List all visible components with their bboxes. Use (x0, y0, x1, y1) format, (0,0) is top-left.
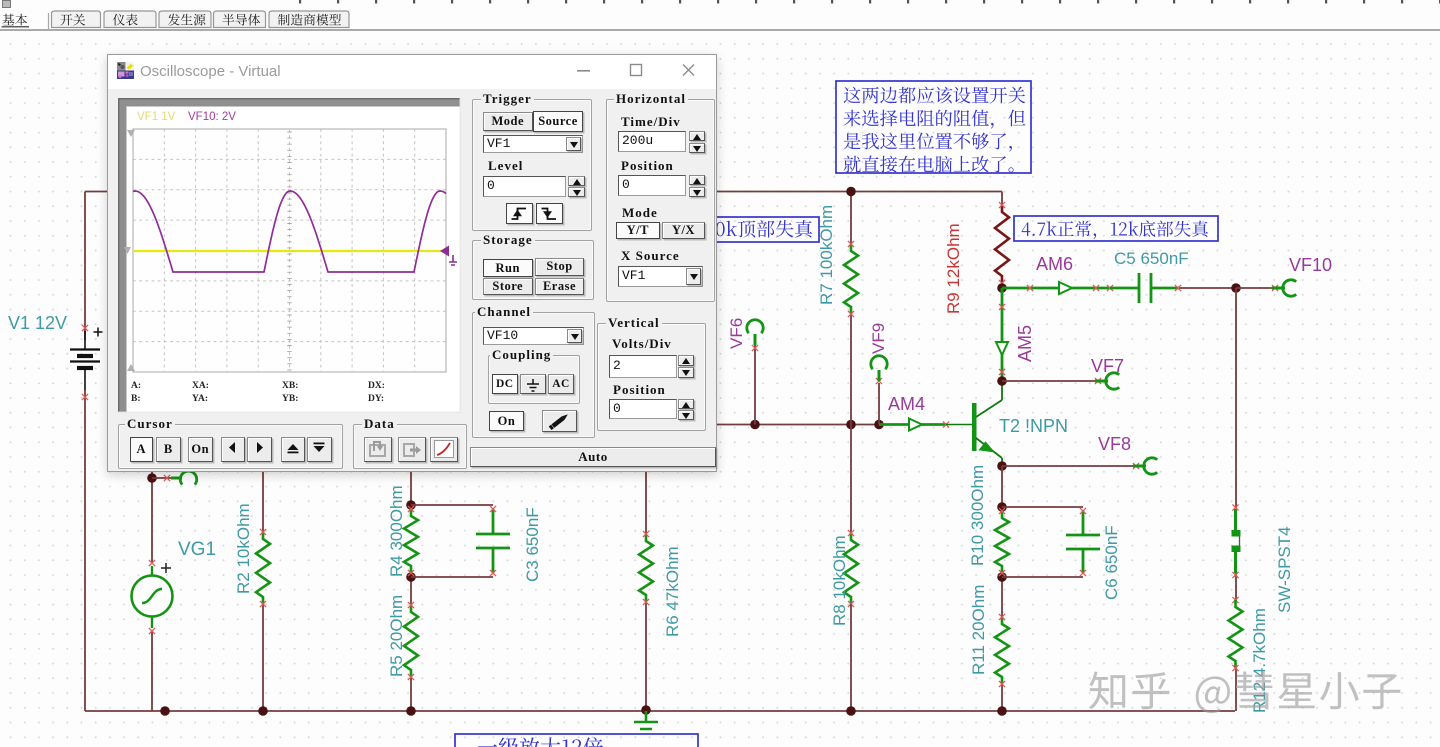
svg-text:VF10: VF10 (1289, 255, 1332, 275)
svg-text:C3 650nF: C3 650nF (523, 507, 542, 582)
svg-text:YB:: YB: (282, 394, 298, 404)
svg-text:DX:: DX: (368, 381, 385, 391)
svg-text:XB:: XB: (282, 381, 298, 391)
svg-text:AM5: AM5 (1015, 325, 1035, 362)
svg-text:R9 12kOhm: R9 12kOhm (944, 223, 963, 314)
svg-text:A:: A: (131, 381, 141, 391)
svg-text:R4 300Ohm: R4 300Ohm (387, 485, 406, 577)
svg-text:YA:: YA: (192, 394, 208, 404)
svg-text:VF8: VF8 (1098, 434, 1131, 454)
svg-text:R5 20Ohm: R5 20Ohm (387, 595, 406, 677)
svg-text:R6 47kOhm: R6 47kOhm (663, 546, 682, 637)
svg-text:AM6: AM6 (1036, 254, 1073, 274)
svg-text:B:: B: (131, 394, 141, 404)
svg-text:T2 !NPN: T2 !NPN (999, 416, 1068, 436)
svg-text:R2 10kOhm: R2 10kOhm (234, 503, 253, 594)
svg-text:VF6: VF6 (727, 318, 746, 349)
svg-text:SW-SPST4: SW-SPST4 (1275, 526, 1294, 613)
svg-text:XA:: XA: (192, 381, 209, 391)
svg-text:AM4: AM4 (888, 394, 925, 414)
svg-text:R8 10kOhm: R8 10kOhm (830, 535, 849, 626)
svg-text:R11 20Ohm: R11 20Ohm (969, 585, 988, 675)
svg-text:C6 650nF: C6 650nF (1102, 525, 1121, 600)
svg-text:VG1: VG1 (178, 539, 216, 560)
svg-text:VF9: VF9 (869, 323, 888, 354)
svg-text:VF7: VF7 (1091, 356, 1124, 376)
svg-text:VF10: 2V: VF10: 2V (188, 111, 236, 123)
svg-text:R10 300Ohm: R10 300Ohm (968, 465, 987, 566)
svg-text:DY:: DY: (368, 394, 384, 404)
svg-text:V1 12V: V1 12V (8, 313, 67, 333)
svg-text:C5 650nF: C5 650nF (1114, 249, 1189, 268)
svg-text:VF1 1V: VF1 1V (137, 111, 176, 123)
